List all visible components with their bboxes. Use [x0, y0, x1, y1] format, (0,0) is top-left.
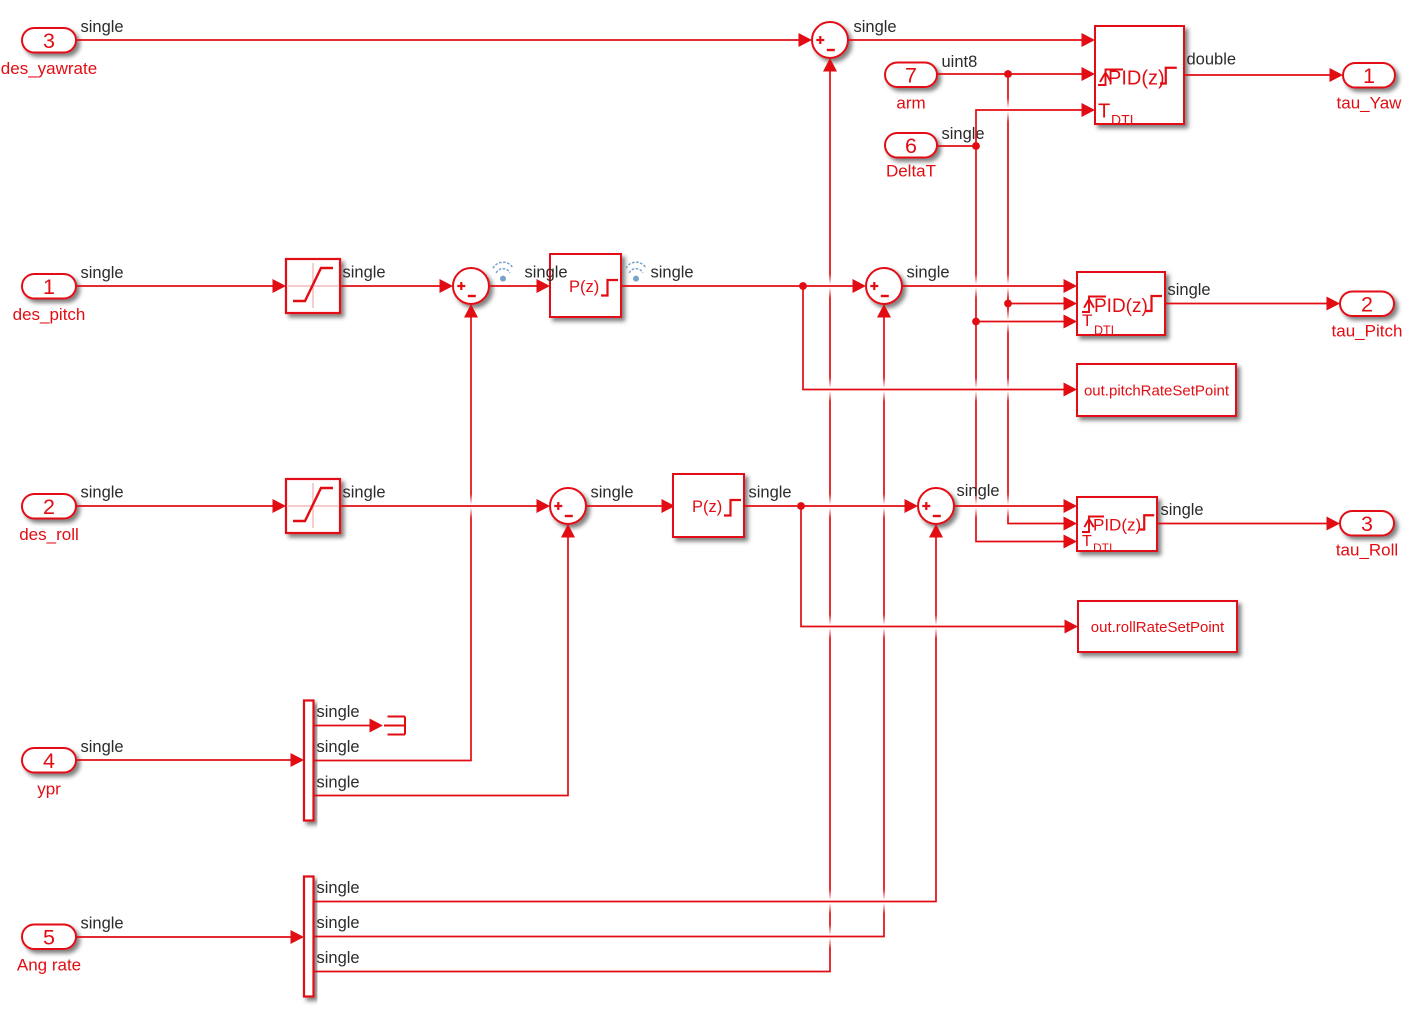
- svg-text:des_roll: des_roll: [19, 525, 79, 544]
- svg-text:single: single: [317, 879, 360, 897]
- signal label single (DeltaT): [942, 125, 985, 143]
- signal label single (Saturation2 out): [343, 484, 386, 502]
- svg-text:Ang rate: Ang rate: [17, 956, 81, 975]
- svg-text:DTI: DTI: [1094, 324, 1114, 338]
- sum block Sum_pitch1: [453, 268, 489, 304]
- svg-text:single: single: [957, 482, 1000, 500]
- junction arm branch: [1004, 70, 1012, 78]
- wire DeltaT to junction: [937, 145, 976, 147]
- wire des_roll to Saturation2: [76, 499, 286, 513]
- svg-text:single: single: [81, 18, 124, 36]
- signal label single (PID_roll out): [1161, 501, 1204, 519]
- signal label single (Demux2 out 1): [317, 879, 360, 897]
- signal label single (port 4): [81, 738, 124, 756]
- wire Demux1 out 2 to Sum_pitch1: [314, 304, 479, 761]
- sum block Sum_roll2: [918, 488, 954, 524]
- demux block Demux1: [304, 701, 314, 821]
- signal label single (port 3): [81, 18, 124, 36]
- transfer-function block P(z)_pitch: [550, 254, 621, 317]
- saturation block Saturation1: [286, 259, 340, 313]
- svg-text:single: single: [317, 738, 360, 756]
- svg-text:3: 3: [43, 29, 55, 53]
- terminator block: [384, 717, 405, 735]
- svg-text:uint8: uint8: [942, 53, 978, 71]
- signal label uint8: [942, 53, 978, 71]
- output port 2 tau_Pitch: [1332, 292, 1403, 341]
- wire ypr to Demux1: [76, 753, 304, 767]
- signal label single (Sum_yaw out): [854, 18, 897, 36]
- svg-text:3: 3: [1361, 512, 1373, 536]
- svg-text:1: 1: [43, 275, 55, 299]
- svg-text:PID(z): PID(z): [1108, 68, 1165, 90]
- svg-text:7: 7: [905, 64, 917, 88]
- PID controller block PID_pitch: [1077, 272, 1165, 338]
- signal label single (Sum_pitch1 out): [525, 264, 568, 282]
- wire Demux2 out 1 to Sum_roll2: [314, 524, 944, 902]
- wire Demux2 out 3 to Sum_yaw: [314, 58, 838, 972]
- svg-text:ypr: ypr: [37, 780, 61, 799]
- svg-text:arm: arm: [896, 94, 925, 113]
- sum block Sum_yaw: [812, 22, 848, 58]
- svg-text:single: single: [81, 915, 124, 933]
- signal label single (Demux1 out 3): [317, 774, 360, 792]
- svg-text:6: 6: [905, 134, 917, 158]
- svg-text:4: 4: [43, 749, 55, 773]
- signal label single (port 1): [81, 264, 124, 282]
- demux block Demux2: [304, 877, 314, 997]
- svg-text:single: single: [942, 125, 985, 143]
- signal label single (Saturation1 out): [343, 264, 386, 282]
- svg-text:P(z): P(z): [692, 498, 722, 516]
- svg-text:single: single: [651, 264, 694, 282]
- signal label single (PID_pitch out): [1168, 281, 1211, 299]
- svg-text:DTI: DTI: [1111, 112, 1134, 128]
- wire branch to out.rollRateSetPoint: [801, 506, 1078, 634]
- wire Demux2 out 2 to Sum_pitch2: [314, 304, 892, 937]
- input port 5 Ang rate: [17, 925, 81, 975]
- wire Sum_roll2 to PID_roll input 1: [954, 499, 1077, 513]
- svg-text:single: single: [1161, 501, 1204, 519]
- wire Sum_roll1 to P(z)_roll: [586, 499, 675, 513]
- input port 2 des_roll: [19, 494, 79, 544]
- saturation block Saturation2: [286, 479, 340, 533]
- wire Saturation1 to Sum_pitch1: [340, 279, 453, 293]
- svg-text:tau_Roll: tau_Roll: [1336, 541, 1398, 560]
- goto block out.pitchRateSetPoint: [1077, 364, 1236, 416]
- wire PID_yaw to tau_Yaw: [1184, 68, 1343, 82]
- wire branch to out.pitchRateSetPoint: [803, 286, 1077, 397]
- svg-text:single: single: [749, 484, 792, 502]
- svg-text:single: single: [1168, 281, 1211, 299]
- sum block Sum_roll1: [550, 488, 586, 524]
- input port 4 ypr: [22, 748, 76, 799]
- svg-text:single: single: [317, 703, 360, 721]
- wire Sum_pitch2 to PID_pitch input 1: [902, 279, 1077, 293]
- svg-text:single: single: [343, 484, 386, 502]
- signal label single (port 2): [81, 484, 124, 502]
- output port 1 tau_Yaw: [1337, 63, 1403, 113]
- goto block out.rollRateSetPoint: [1078, 601, 1237, 652]
- signal label single (Sum_roll1 out): [591, 484, 634, 502]
- svg-text:single: single: [854, 18, 897, 36]
- svg-text:single: single: [591, 484, 634, 502]
- input port 6 DeltaT: [885, 133, 937, 181]
- signal label single (P(z)_pitch out): [651, 264, 694, 282]
- wire P(z)_roll to Sum_roll2: [744, 499, 918, 513]
- svg-text:out.rollRateSetPoint: out.rollRateSetPoint: [1091, 619, 1225, 636]
- wire des_yawrate to Sum_yaw: [76, 33, 812, 47]
- svg-text:P(z): P(z): [569, 278, 599, 296]
- svg-text:T: T: [1082, 533, 1092, 550]
- input port 7 arm: [885, 63, 937, 113]
- PID controller block PID_roll: [1077, 497, 1157, 555]
- svg-text:single: single: [907, 264, 950, 282]
- transfer-function block P(z)_roll: [673, 474, 744, 537]
- wire DeltaT branch to PID_pitch input 3: [976, 315, 1077, 329]
- svg-text:des_yawrate: des_yawrate: [1, 59, 97, 78]
- svg-text:PID(z): PID(z): [1093, 516, 1141, 535]
- svg-text:tau_Yaw: tau_Yaw: [1337, 94, 1403, 113]
- junction roll rate setpoint: [797, 502, 805, 510]
- svg-text:single: single: [317, 949, 360, 967]
- svg-text:DTI: DTI: [1093, 541, 1112, 555]
- wire arm branch to PID_pitch input 2: [1008, 297, 1077, 311]
- wire Sum_yaw to PID_yaw input 1: [848, 33, 1095, 47]
- svg-text:single: single: [81, 264, 124, 282]
- wireless badge 1: [493, 262, 513, 281]
- svg-text:1: 1: [1363, 64, 1375, 88]
- svg-text:2: 2: [43, 495, 55, 519]
- svg-text:double: double: [1187, 51, 1237, 69]
- signal label double: [1187, 51, 1237, 69]
- wire PID_pitch to tau_Pitch: [1165, 297, 1340, 311]
- signal label single (Demux1 out 2): [317, 738, 360, 756]
- wire PID_roll to tau_Roll: [1157, 517, 1340, 531]
- svg-text:tau_Pitch: tau_Pitch: [1332, 322, 1403, 341]
- wireless badge 2: [626, 262, 646, 281]
- input port 3 des_yawrate: [1, 28, 97, 78]
- svg-text:T: T: [1098, 101, 1110, 123]
- svg-text:single: single: [317, 914, 360, 932]
- svg-text:T: T: [1082, 311, 1092, 330]
- svg-text:5: 5: [43, 926, 55, 950]
- svg-text:single: single: [343, 264, 386, 282]
- wire arm to PID_yaw input 2: [937, 67, 1095, 81]
- wire Sum_pitch1 to P(z)_pitch: [489, 279, 550, 293]
- junction DeltaT to PID_pitch input 3: [972, 318, 980, 326]
- wire arm branch down to PID_roll input 2: [1008, 74, 1077, 531]
- wire DeltaT up to PID_yaw input 3: [976, 103, 1095, 146]
- wire P(z)_pitch to Sum_pitch2: [621, 279, 866, 293]
- wire Ang rate to Demux2: [76, 930, 304, 944]
- wire Demux1 out 3 to Sum_roll1: [314, 524, 576, 796]
- svg-text:single: single: [81, 738, 124, 756]
- svg-text:single: single: [317, 774, 360, 792]
- svg-text:DeltaT: DeltaT: [886, 162, 936, 181]
- input port 1 des_pitch: [13, 274, 86, 324]
- output port 3 tau_Roll: [1336, 511, 1398, 560]
- signal label single (Demux2 out 3): [317, 949, 360, 967]
- wire Saturation2 to Sum_roll1: [340, 499, 550, 513]
- PID controller block PID_yaw: [1095, 26, 1184, 128]
- svg-text:out.pitchRateSetPoint: out.pitchRateSetPoint: [1084, 383, 1230, 400]
- junction DeltaT: [972, 142, 980, 150]
- svg-text:single: single: [525, 264, 568, 282]
- signal label single (P(z)_roll out): [749, 484, 792, 502]
- wire DeltaT branch down to PID_roll input 3: [976, 146, 1077, 549]
- signal label single (Demux2 out 2): [317, 914, 360, 932]
- sum block Sum_pitch2: [866, 268, 902, 304]
- signal label single (Sum_roll2 out): [957, 482, 1000, 500]
- svg-text:PID(z): PID(z): [1094, 296, 1148, 317]
- junction pitch rate setpoint: [799, 282, 807, 290]
- svg-text:2: 2: [1361, 293, 1373, 317]
- svg-text:single: single: [81, 484, 124, 502]
- wire Demux1 out 1 to Terminator: [314, 719, 384, 733]
- wire des_pitch to Saturation1: [76, 279, 286, 293]
- signal label single (Demux1 out 1): [317, 703, 360, 721]
- svg-text:des_pitch: des_pitch: [13, 305, 86, 324]
- signal label single (Sum_pitch2 out): [907, 264, 950, 282]
- signal label single (port 5): [81, 915, 124, 933]
- junction arm to PID_pitch input 2: [1004, 300, 1012, 308]
